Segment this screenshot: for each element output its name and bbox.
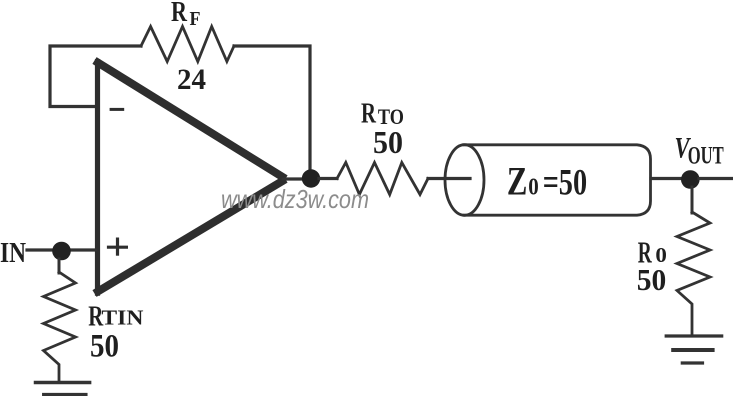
op-amp U1 (95, 59, 287, 296)
wire node down to RO (691, 187, 694, 213)
svg-text:0: 0 (528, 173, 539, 200)
svg-text:50: 50 (90, 329, 119, 365)
ground (output side) (666, 336, 722, 363)
wire RTO to coax (428, 177, 470, 180)
node VOUT junction (681, 170, 700, 189)
node output junction (302, 169, 320, 187)
svg-text:50: 50 (373, 124, 403, 160)
resistor RTO (337, 163, 428, 195)
net label VOUT (675, 131, 724, 169)
resistor RF (141, 27, 234, 62)
transmission line Z0 coax body (464, 145, 651, 215)
svg-text:TIN: TIN (101, 306, 143, 330)
label RTO (361, 98, 404, 130)
svg-text:F: F (190, 8, 201, 30)
label RO (638, 235, 667, 270)
svg-text:R: R (171, 0, 188, 28)
svg-text:OUT: OUT (688, 142, 724, 169)
node input junction (52, 242, 71, 261)
svg-text:www.dz3w.com: www.dz3w.com (221, 184, 369, 214)
wire IN to non-inverting input (27, 248, 96, 251)
label RF (171, 0, 201, 30)
label RTIN (88, 300, 143, 332)
ground (input side) (36, 383, 90, 395)
wire feedback right leg down to output node (234, 46, 310, 171)
wire VOUT to right edge (699, 177, 732, 180)
svg-text:50: 50 (637, 262, 667, 297)
wire feedback left leg from inverting input (50, 46, 141, 107)
wire node to RTIN (58, 259, 61, 273)
svg-text:=50: =50 (543, 162, 587, 203)
label Z0=50 (507, 158, 587, 203)
wire coax to VOUT node (651, 177, 683, 180)
svg-text:24: 24 (177, 64, 206, 96)
resistor RO (677, 212, 710, 336)
svg-text:IN: IN (0, 238, 26, 269)
svg-text:Z: Z (507, 158, 528, 203)
wire node to RTO (319, 177, 337, 180)
transmission line Z0 left end cap (445, 145, 484, 216)
resistor RTIN (44, 272, 76, 382)
wire op-amp output to node (283, 177, 303, 180)
